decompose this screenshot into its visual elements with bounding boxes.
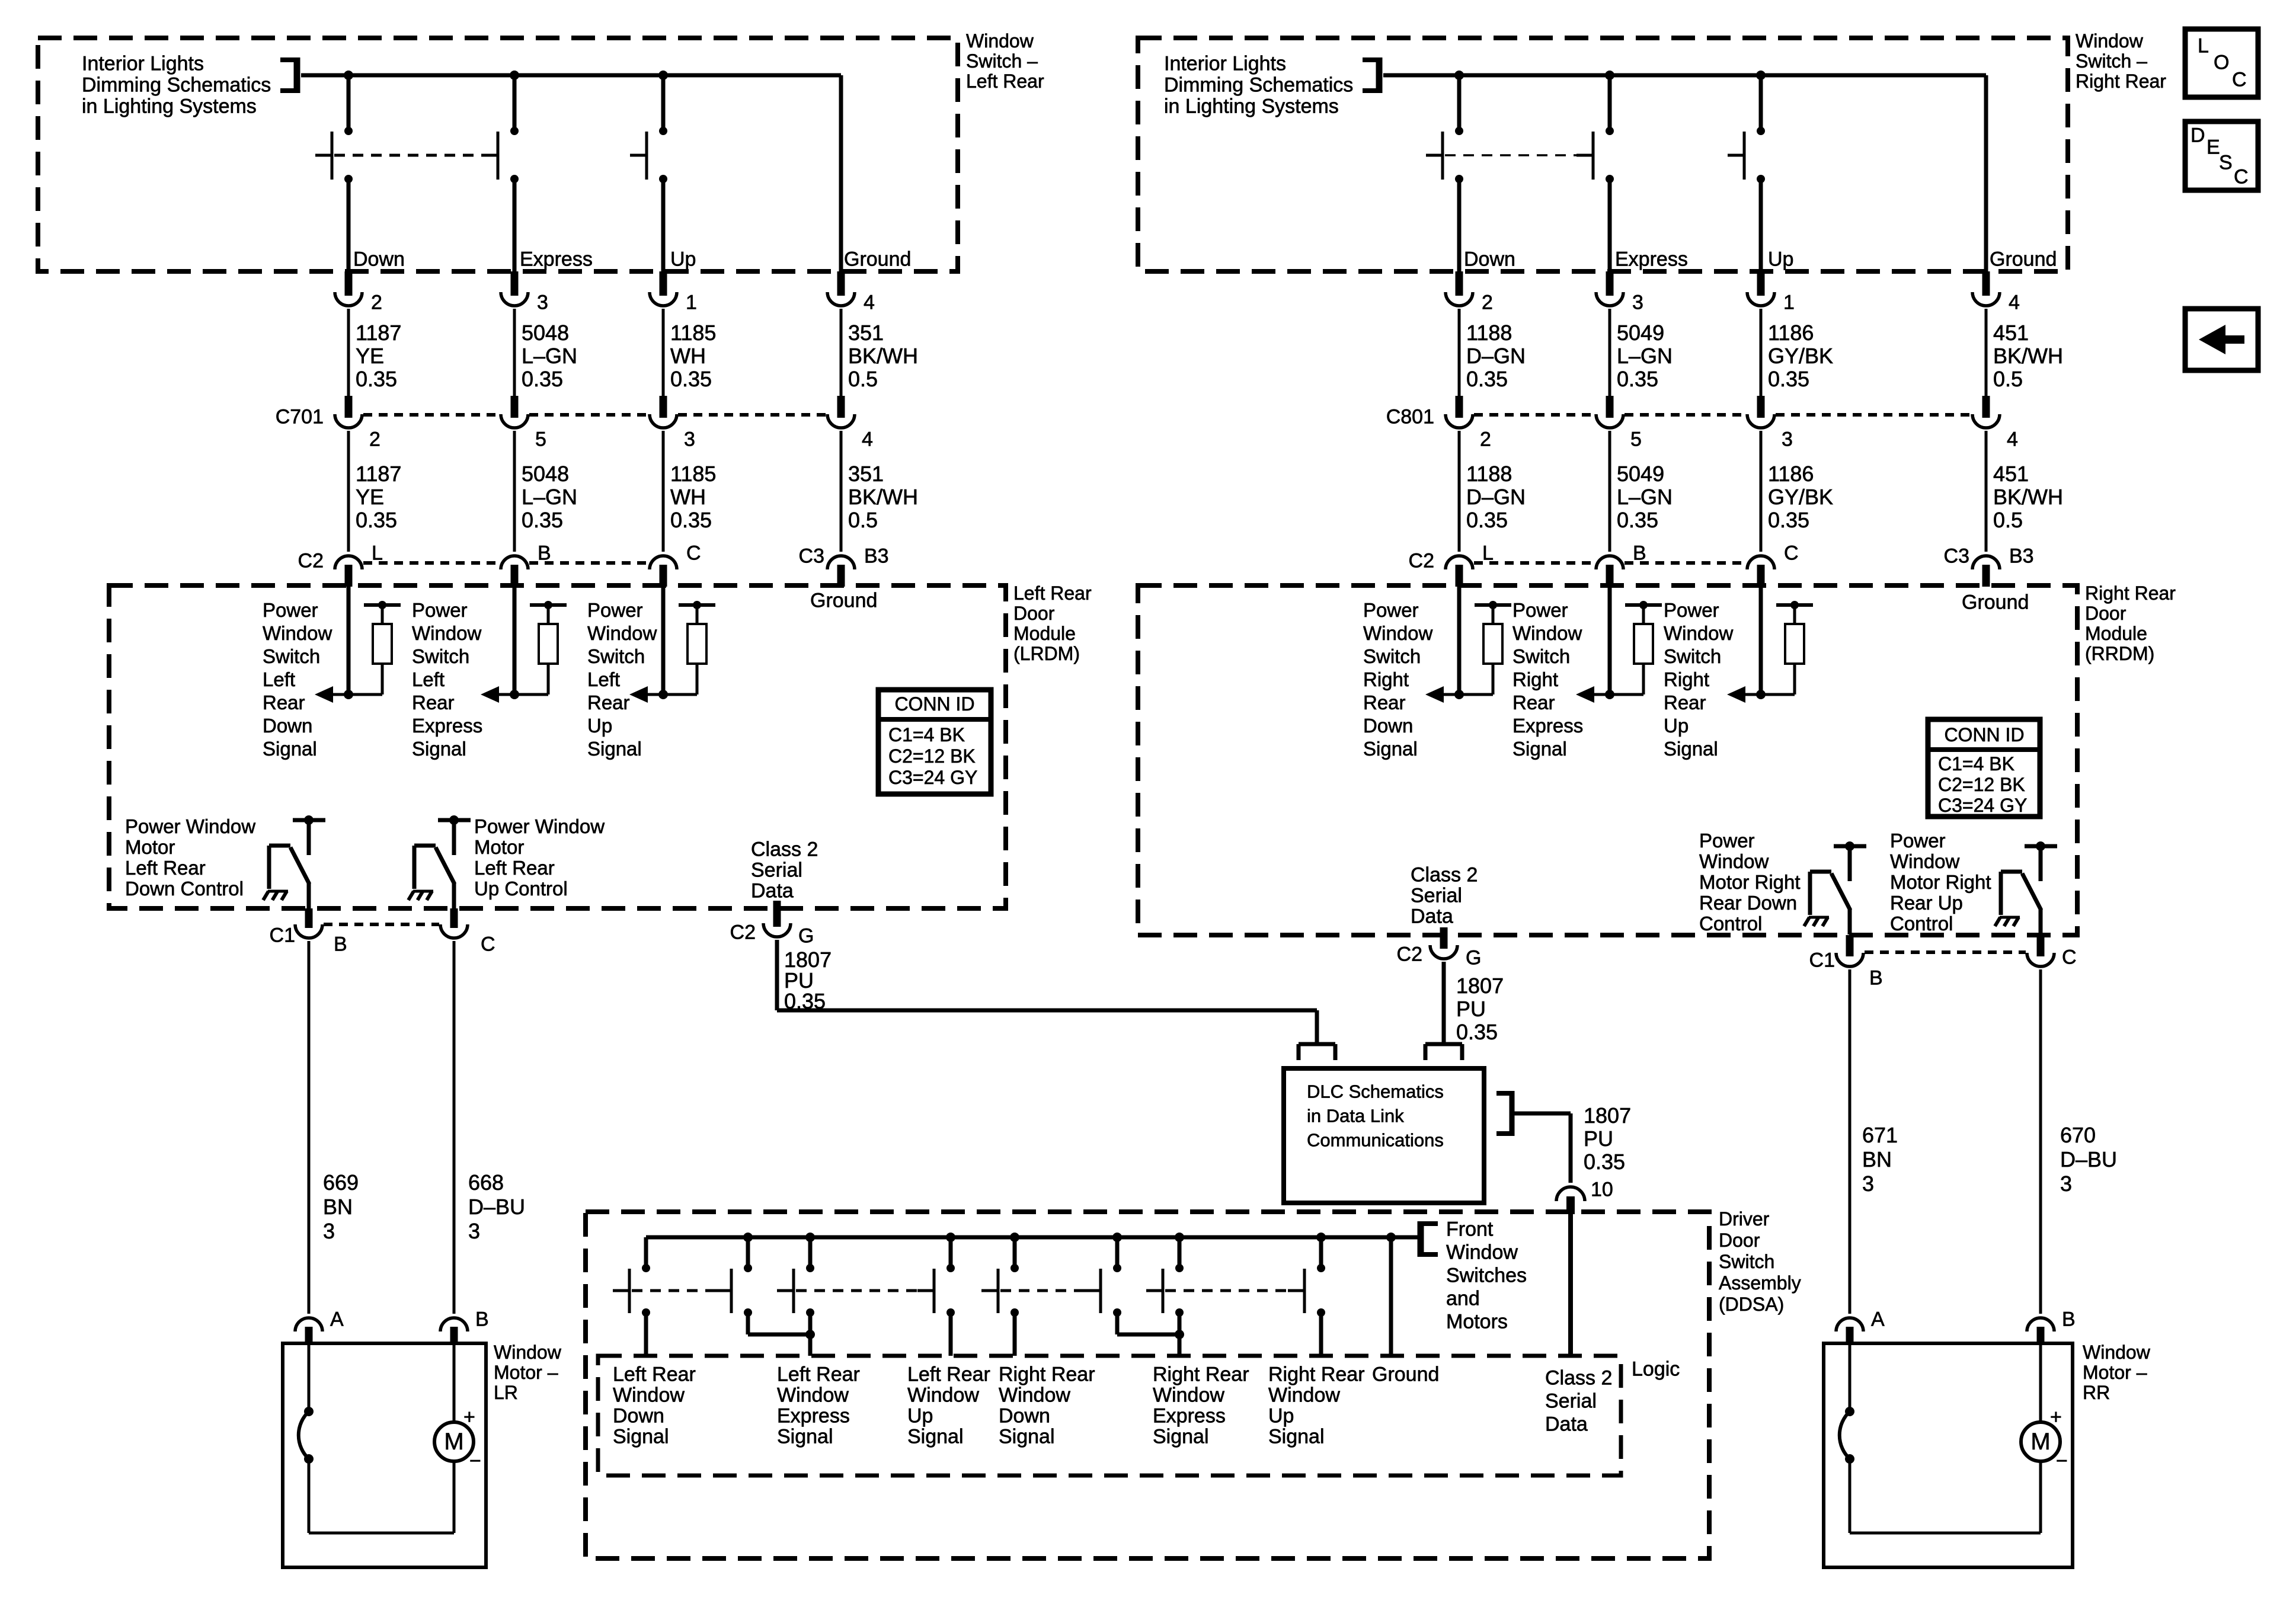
svg-text:Left Rear: Left Rear <box>777 1363 860 1385</box>
svg-text:C1: C1 <box>270 924 295 946</box>
svg-text:BK/WH: BK/WH <box>1993 344 2063 368</box>
svg-text:RR: RR <box>2083 1382 2110 1403</box>
svg-text:Ground: Ground <box>1990 248 2057 270</box>
svg-text:Right Rear: Right Rear <box>999 1363 1095 1385</box>
svg-text:Left Rear: Left Rear <box>1013 582 1092 604</box>
svg-text:Switch: Switch <box>412 645 469 667</box>
svg-text:WH: WH <box>670 485 706 509</box>
svg-text:Down: Down <box>1464 248 1515 270</box>
svg-text:C2: C2 <box>1409 549 1434 572</box>
svg-text:Window: Window <box>494 1342 562 1363</box>
svg-text:Left: Left <box>263 668 295 690</box>
svg-text:Window: Window <box>966 30 1034 52</box>
svg-text:D–GN: D–GN <box>1466 485 1526 509</box>
svg-text:0.35: 0.35 <box>1768 367 1809 391</box>
svg-text:−: − <box>469 1449 481 1472</box>
svg-text:Power Window: Power Window <box>125 815 255 837</box>
svg-text:G: G <box>1466 946 1481 969</box>
svg-text:C2=12 BK: C2=12 BK <box>1938 774 2025 795</box>
svg-text:C: C <box>1784 542 1799 564</box>
svg-text:Motor –: Motor – <box>494 1362 558 1383</box>
svg-text:0.35: 0.35 <box>356 508 397 532</box>
svg-text:5: 5 <box>535 428 546 450</box>
svg-text:Serial: Serial <box>1545 1390 1597 1412</box>
svg-text:Signal: Signal <box>587 738 642 760</box>
svg-text:351: 351 <box>848 321 884 345</box>
svg-text:Rear: Rear <box>263 692 305 713</box>
svg-text:Window: Window <box>587 622 657 644</box>
svg-text:G: G <box>798 924 814 947</box>
svg-text:Express: Express <box>1512 715 1583 737</box>
svg-text:Serial: Serial <box>751 859 802 881</box>
svg-text:351: 351 <box>848 462 884 486</box>
svg-text:Left Rear: Left Rear <box>474 857 555 879</box>
svg-text:3: 3 <box>323 1219 335 1243</box>
svg-text:0.35: 0.35 <box>784 989 826 1013</box>
svg-text:Rear: Rear <box>1664 692 1706 713</box>
svg-text:Dimming Schematics: Dimming Schematics <box>1164 73 1353 96</box>
svg-text:Up: Up <box>1664 715 1689 737</box>
svg-text:3: 3 <box>537 291 548 313</box>
svg-text:Rear: Rear <box>587 692 630 713</box>
svg-text:1: 1 <box>686 291 697 313</box>
svg-text:Door: Door <box>1013 603 1055 624</box>
svg-text:Window: Window <box>613 1384 685 1406</box>
svg-text:B: B <box>2062 1308 2076 1330</box>
svg-text:Class 2: Class 2 <box>1545 1366 1612 1389</box>
svg-text:in Lighting Systems: in Lighting Systems <box>82 95 257 117</box>
svg-text:(RRDM): (RRDM) <box>2085 643 2154 664</box>
svg-text:3: 3 <box>468 1219 480 1243</box>
svg-text:Up: Up <box>670 248 696 270</box>
svg-text:3: 3 <box>2060 1172 2072 1196</box>
svg-text:C1=4 BK: C1=4 BK <box>888 724 965 745</box>
svg-text:Power: Power <box>1699 830 1755 852</box>
svg-text:BK/WH: BK/WH <box>1993 485 2063 509</box>
svg-text:LR: LR <box>494 1382 518 1403</box>
svg-text:Window: Window <box>1363 622 1433 644</box>
svg-text:1185: 1185 <box>670 462 716 486</box>
svg-text:Switch: Switch <box>1664 645 1721 667</box>
svg-text:Signal: Signal <box>1268 1425 1325 1448</box>
svg-text:C: C <box>686 542 701 564</box>
svg-text:Interior Lights: Interior Lights <box>82 52 204 75</box>
svg-text:PU: PU <box>1584 1126 1613 1151</box>
svg-text:3: 3 <box>1632 291 1643 313</box>
svg-text:Ground: Ground <box>1372 1363 1439 1385</box>
svg-text:0.5: 0.5 <box>1993 367 2023 391</box>
svg-text:YE: YE <box>356 344 384 368</box>
svg-text:2: 2 <box>369 428 380 450</box>
svg-text:Left Rear: Left Rear <box>907 1363 990 1385</box>
svg-text:Communications: Communications <box>1307 1129 1444 1150</box>
svg-text:Window: Window <box>907 1384 979 1406</box>
svg-text:Right Rear: Right Rear <box>1153 1363 1249 1385</box>
svg-text:C1=4 BK: C1=4 BK <box>1938 753 2014 774</box>
svg-text:Signal: Signal <box>1664 738 1718 760</box>
svg-text:0.35: 0.35 <box>1584 1150 1625 1174</box>
svg-text:0.35: 0.35 <box>356 367 397 391</box>
svg-text:−: − <box>2056 1449 2068 1472</box>
svg-text:C2: C2 <box>1397 943 1422 965</box>
svg-text:Data: Data <box>1411 905 1453 927</box>
svg-text:Signal: Signal <box>412 738 466 760</box>
svg-text:Motor –: Motor – <box>2083 1362 2147 1383</box>
svg-text:C1: C1 <box>1809 949 1835 971</box>
svg-text:Window: Window <box>1446 1241 1518 1263</box>
svg-text:0.35: 0.35 <box>670 508 712 532</box>
svg-text:Switch –: Switch – <box>966 50 1038 72</box>
svg-text:Up Control: Up Control <box>474 878 568 900</box>
svg-text:O: O <box>2214 51 2229 73</box>
svg-text:C3=24 GY: C3=24 GY <box>888 767 977 788</box>
svg-text:Data: Data <box>751 879 794 902</box>
svg-text:Window: Window <box>2076 30 2144 52</box>
svg-text:Control: Control <box>1699 913 1762 934</box>
svg-text:Express: Express <box>777 1404 850 1427</box>
svg-text:Switch: Switch <box>1512 645 1570 667</box>
svg-text:5048: 5048 <box>522 321 569 345</box>
svg-text:1807: 1807 <box>1584 1103 1631 1128</box>
svg-text:C2: C2 <box>730 921 756 943</box>
svg-text:Window: Window <box>1153 1384 1224 1406</box>
svg-text:0.35: 0.35 <box>522 508 563 532</box>
svg-text:A: A <box>330 1308 344 1330</box>
svg-text:(LRDM): (LRDM) <box>1013 643 1080 664</box>
svg-text:1188: 1188 <box>1466 321 1512 345</box>
svg-text:+: + <box>463 1406 475 1428</box>
svg-text:Window: Window <box>412 622 482 644</box>
svg-text:Ground: Ground <box>1962 591 2029 613</box>
svg-text:Window: Window <box>1268 1384 1340 1406</box>
svg-text:Left Rear: Left Rear <box>613 1363 696 1385</box>
svg-text:1185: 1185 <box>670 321 716 345</box>
svg-text:Window: Window <box>1699 850 1769 872</box>
svg-text:DLC Schematics: DLC Schematics <box>1307 1081 1444 1102</box>
svg-text:3: 3 <box>1862 1172 1874 1196</box>
svg-text:M: M <box>2030 1429 2050 1455</box>
svg-text:0.35: 0.35 <box>670 367 712 391</box>
svg-text:GY/BK: GY/BK <box>1768 485 1833 509</box>
svg-text:+: + <box>2050 1406 2062 1428</box>
svg-text:Express: Express <box>1615 248 1688 270</box>
svg-text:Door: Door <box>1719 1230 1760 1251</box>
svg-text:1: 1 <box>1783 291 1795 313</box>
svg-text:Power: Power <box>1363 599 1419 621</box>
svg-text:Front: Front <box>1446 1218 1494 1240</box>
svg-text:Switch –: Switch – <box>2076 50 2147 72</box>
svg-text:and: and <box>1446 1287 1480 1310</box>
svg-text:Up: Up <box>587 715 612 737</box>
svg-text:B3: B3 <box>864 545 889 567</box>
svg-text:C801: C801 <box>1386 405 1434 428</box>
svg-text:C: C <box>481 933 495 955</box>
svg-text:Motor: Motor <box>474 836 524 858</box>
svg-text:Logic: Logic <box>1632 1358 1680 1380</box>
svg-text:4: 4 <box>2009 291 2020 313</box>
svg-text:Power: Power <box>1664 599 1719 621</box>
svg-text:4: 4 <box>2007 428 2018 450</box>
svg-text:in Lighting Systems: in Lighting Systems <box>1164 95 1339 117</box>
svg-text:Assembly: Assembly <box>1719 1272 1801 1294</box>
svg-text:Right: Right <box>1363 668 1409 690</box>
svg-text:B: B <box>1869 966 1883 989</box>
svg-text:GY/BK: GY/BK <box>1768 344 1833 368</box>
svg-text:Left Rear: Left Rear <box>125 857 206 879</box>
svg-text:Motor Right: Motor Right <box>1890 871 1991 893</box>
svg-text:670: 670 <box>2060 1123 2096 1147</box>
svg-text:CONN ID: CONN ID <box>1944 724 2024 745</box>
svg-text:Down: Down <box>613 1404 664 1427</box>
svg-text:5: 5 <box>1630 428 1642 450</box>
svg-text:4: 4 <box>862 428 873 450</box>
svg-text:C3=24 GY: C3=24 GY <box>1938 795 2027 816</box>
svg-text:Rear Up: Rear Up <box>1890 892 1963 914</box>
svg-text:0.35: 0.35 <box>1466 367 1508 391</box>
svg-text:451: 451 <box>1993 462 2029 486</box>
svg-text:0.35: 0.35 <box>522 367 563 391</box>
svg-text:Motor Right: Motor Right <box>1699 871 1801 893</box>
svg-text:0.5: 0.5 <box>1993 508 2023 532</box>
svg-text:Power: Power <box>1512 599 1568 621</box>
svg-text:Data: Data <box>1545 1413 1588 1435</box>
svg-text:Window: Window <box>999 1384 1070 1406</box>
svg-text:Ground: Ground <box>844 248 911 270</box>
svg-text:Signal: Signal <box>1363 738 1418 760</box>
svg-text:E: E <box>2207 136 2220 158</box>
svg-text:A: A <box>1871 1308 1885 1330</box>
svg-text:B: B <box>334 933 347 955</box>
svg-text:Down: Down <box>1363 715 1413 737</box>
svg-text:4: 4 <box>864 291 875 313</box>
svg-text:C: C <box>2232 68 2247 91</box>
svg-text:Motors: Motors <box>1446 1310 1508 1333</box>
svg-text:Motor: Motor <box>125 836 175 858</box>
svg-text:Switch: Switch <box>1719 1251 1774 1272</box>
svg-text:Signal: Signal <box>613 1425 669 1448</box>
svg-text:Window: Window <box>1890 850 1960 872</box>
svg-text:Power: Power <box>263 599 318 621</box>
svg-text:BK/WH: BK/WH <box>848 485 918 509</box>
svg-text:451: 451 <box>1993 321 2029 345</box>
svg-text:Class 2: Class 2 <box>751 838 818 860</box>
svg-text:Power: Power <box>1890 830 1946 852</box>
svg-text:L–GN: L–GN <box>1617 485 1673 509</box>
svg-text:S: S <box>2219 151 2233 174</box>
svg-text:Power: Power <box>412 599 468 621</box>
svg-text:Switch: Switch <box>263 645 320 667</box>
svg-text:B: B <box>1633 542 1646 564</box>
svg-text:0.35: 0.35 <box>1768 508 1809 532</box>
svg-text:5049: 5049 <box>1617 321 1664 345</box>
svg-text:10: 10 <box>1591 1178 1613 1201</box>
svg-text:C2: C2 <box>298 549 324 572</box>
svg-text:Interior Lights: Interior Lights <box>1164 52 1286 75</box>
svg-text:Right Rear: Right Rear <box>2076 71 2166 92</box>
svg-text:M: M <box>444 1429 463 1455</box>
svg-text:D–BU: D–BU <box>2060 1147 2117 1172</box>
svg-text:Right: Right <box>1664 668 1709 690</box>
svg-text:Switch: Switch <box>587 645 645 667</box>
svg-text:Power: Power <box>587 599 643 621</box>
svg-text:Signal: Signal <box>999 1425 1055 1448</box>
svg-text:0.35: 0.35 <box>1617 508 1658 532</box>
svg-text:D–GN: D–GN <box>1466 344 1526 368</box>
svg-text:Left Rear: Left Rear <box>966 71 1044 92</box>
svg-text:Left: Left <box>412 668 445 690</box>
svg-text:C701: C701 <box>276 405 324 428</box>
svg-text:Window: Window <box>1664 622 1734 644</box>
svg-text:WH: WH <box>670 344 706 368</box>
svg-text:5048: 5048 <box>522 462 569 486</box>
svg-text:Switch: Switch <box>1363 645 1421 667</box>
svg-text:Up: Up <box>907 1404 933 1427</box>
svg-text:Rear Down: Rear Down <box>1699 892 1797 914</box>
svg-text:L–GN: L–GN <box>522 485 577 509</box>
svg-text:L: L <box>2198 34 2209 57</box>
svg-text:0.35: 0.35 <box>1617 367 1658 391</box>
svg-text:671: 671 <box>1862 1123 1898 1147</box>
svg-text:0.5: 0.5 <box>848 508 878 532</box>
svg-text:Signal: Signal <box>777 1425 833 1448</box>
svg-text:B: B <box>538 542 551 564</box>
svg-text:Serial: Serial <box>1411 884 1462 907</box>
svg-text:C3: C3 <box>799 545 824 567</box>
svg-text:C3: C3 <box>1944 545 1969 567</box>
svg-text:669: 669 <box>323 1170 359 1195</box>
svg-text:Signal: Signal <box>1153 1425 1209 1448</box>
svg-text:Signal: Signal <box>907 1425 964 1448</box>
svg-text:B3: B3 <box>2009 545 2034 567</box>
svg-text:Power Window: Power Window <box>474 815 605 837</box>
svg-text:Class 2: Class 2 <box>1411 863 1478 886</box>
svg-text:1188: 1188 <box>1466 462 1512 486</box>
svg-text:L–GN: L–GN <box>522 344 577 368</box>
svg-text:Up: Up <box>1268 1404 1294 1427</box>
svg-text:Signal: Signal <box>263 738 317 760</box>
svg-text:CONN ID: CONN ID <box>894 693 974 715</box>
svg-text:Driver: Driver <box>1719 1208 1770 1230</box>
svg-text:L: L <box>372 542 383 564</box>
svg-text:3: 3 <box>684 428 695 450</box>
svg-text:L: L <box>1482 542 1494 564</box>
svg-text:Window: Window <box>1512 622 1582 644</box>
svg-text:5049: 5049 <box>1617 462 1664 486</box>
svg-text:0.35: 0.35 <box>1456 1020 1498 1044</box>
svg-text:1187: 1187 <box>356 321 401 345</box>
svg-text:1186: 1186 <box>1768 321 1814 345</box>
svg-text:Door: Door <box>2085 603 2126 624</box>
svg-text:D: D <box>2191 124 2205 146</box>
svg-text:Dimming Schematics: Dimming Schematics <box>82 73 271 96</box>
svg-text:3: 3 <box>1782 428 1793 450</box>
svg-text:Down: Down <box>263 715 312 737</box>
svg-text:1187: 1187 <box>356 462 401 486</box>
svg-text:2: 2 <box>1480 428 1491 450</box>
svg-text:Signal: Signal <box>1512 738 1567 760</box>
svg-text:Module: Module <box>1013 623 1076 644</box>
svg-text:Ground: Ground <box>810 589 877 612</box>
svg-text:Down Control: Down Control <box>125 878 244 900</box>
svg-text:Right Rear: Right Rear <box>1268 1363 1365 1385</box>
svg-text:in Data Link: in Data Link <box>1307 1105 1404 1126</box>
svg-text:L–GN: L–GN <box>1617 344 1673 368</box>
svg-text:BK/WH: BK/WH <box>848 344 918 368</box>
svg-text:0.5: 0.5 <box>848 367 878 391</box>
svg-text:Express: Express <box>520 248 593 270</box>
svg-text:C: C <box>2234 165 2249 188</box>
svg-text:668: 668 <box>468 1170 504 1195</box>
svg-text:Rear: Rear <box>412 692 455 713</box>
svg-text:Control: Control <box>1890 913 1953 934</box>
svg-text:YE: YE <box>356 485 384 509</box>
svg-text:Rear: Rear <box>1363 692 1406 713</box>
svg-text:Right: Right <box>1512 668 1558 690</box>
svg-text:Left: Left <box>587 668 620 690</box>
svg-text:PU: PU <box>1456 997 1486 1021</box>
svg-text:Module: Module <box>2085 623 2147 644</box>
svg-text:Rear: Rear <box>1512 692 1555 713</box>
svg-text:0.35: 0.35 <box>1466 508 1508 532</box>
svg-text:Down: Down <box>999 1404 1050 1427</box>
svg-text:Express: Express <box>1153 1404 1226 1427</box>
svg-text:Window: Window <box>2083 1342 2151 1363</box>
svg-text:C2=12 BK: C2=12 BK <box>888 745 976 767</box>
svg-text:Window: Window <box>263 622 332 644</box>
svg-text:Right Rear: Right Rear <box>2085 582 2176 604</box>
svg-text:Window: Window <box>777 1384 849 1406</box>
svg-text:Express: Express <box>412 715 482 737</box>
svg-text:BN: BN <box>323 1195 353 1219</box>
svg-text:2: 2 <box>371 291 382 313</box>
svg-text:Switches: Switches <box>1446 1264 1527 1286</box>
svg-text:D–BU: D–BU <box>468 1195 525 1219</box>
svg-text:2: 2 <box>1482 291 1493 313</box>
svg-text:B: B <box>475 1308 489 1330</box>
svg-text:1186: 1186 <box>1768 462 1814 486</box>
svg-text:(DDSA): (DDSA) <box>1719 1294 1784 1315</box>
svg-text:BN: BN <box>1862 1147 1892 1172</box>
svg-text:Up: Up <box>1768 248 1793 270</box>
svg-text:1807: 1807 <box>1456 974 1504 998</box>
svg-text:Down: Down <box>353 248 405 270</box>
svg-text:C: C <box>2062 946 2077 968</box>
